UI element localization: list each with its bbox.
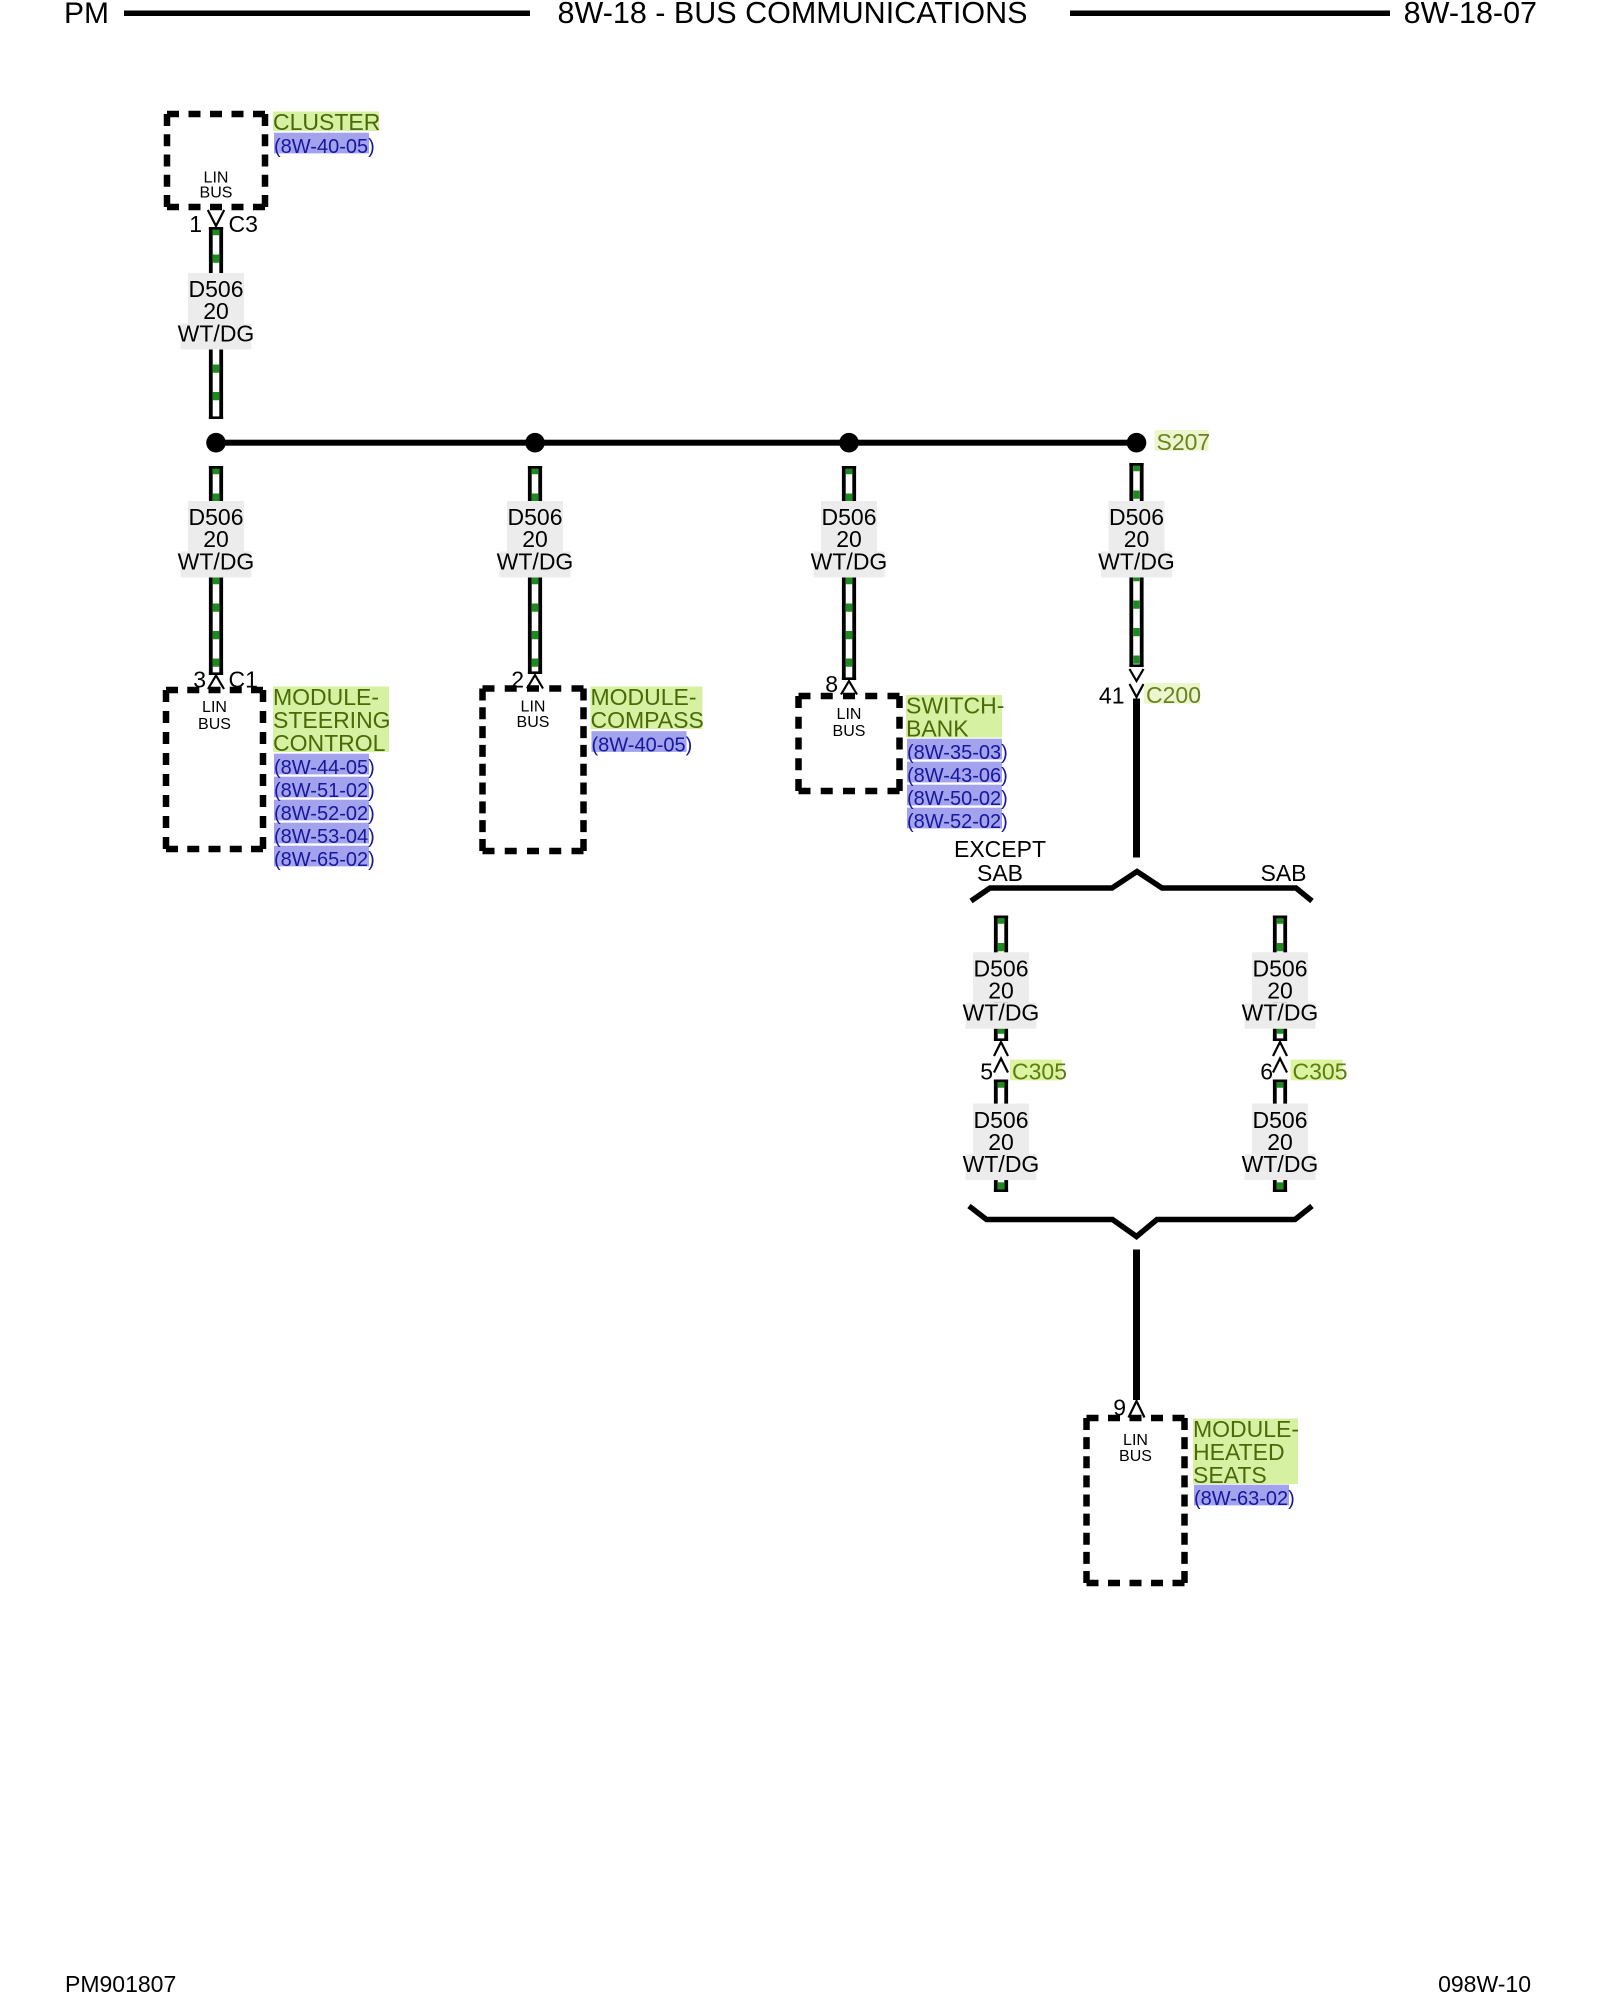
- svg-text:BUS: BUS: [198, 716, 231, 733]
- svg-text:(8W-53-04): (8W-53-04): [274, 826, 375, 848]
- svg-text:BUS: BUS: [833, 723, 866, 740]
- svg-text:SEATS: SEATS: [1193, 1462, 1267, 1488]
- svg-text:BANK: BANK: [906, 716, 969, 742]
- svg-text:WT/DG: WT/DG: [178, 548, 255, 574]
- svg-text:(8W-52-02): (8W-52-02): [907, 811, 1008, 833]
- svg-text:CONTROL: CONTROL: [273, 730, 386, 756]
- svg-text:EXCEPT: EXCEPT: [954, 836, 1046, 862]
- svg-text:BUS: BUS: [1119, 1448, 1152, 1465]
- svg-text:WT/DG: WT/DG: [497, 548, 574, 574]
- svg-text:WT/DG: WT/DG: [963, 1000, 1040, 1026]
- svg-text:(8W-40-05): (8W-40-05): [274, 136, 375, 158]
- svg-text:8W-18 - BUS COMMUNICATIONS: 8W-18 - BUS COMMUNICATIONS: [558, 0, 1028, 30]
- svg-text:(8W-50-02): (8W-50-02): [907, 788, 1008, 810]
- svg-text:LIN: LIN: [1123, 1432, 1148, 1449]
- svg-text:C3: C3: [229, 211, 258, 237]
- svg-text:(8W-65-02): (8W-65-02): [274, 849, 375, 871]
- svg-text:S207: S207: [1157, 429, 1211, 455]
- svg-text:(8W-63-02): (8W-63-02): [1194, 1488, 1295, 1510]
- svg-text:098W-10: 098W-10: [1438, 1971, 1531, 1997]
- svg-text:BUS: BUS: [517, 714, 550, 731]
- svg-text:C305: C305: [1293, 1059, 1348, 1085]
- svg-text:LIN: LIN: [202, 699, 227, 716]
- svg-text:COMPASS: COMPASS: [591, 707, 704, 733]
- svg-text:WT/DG: WT/DG: [1098, 548, 1175, 574]
- svg-text:WT/DG: WT/DG: [811, 548, 888, 574]
- svg-text:LIN: LIN: [837, 706, 862, 723]
- svg-text:SAB: SAB: [977, 860, 1023, 886]
- svg-text:(8W-52-02): (8W-52-02): [274, 803, 375, 825]
- svg-text:PM901807: PM901807: [65, 1971, 176, 1997]
- svg-text:WT/DG: WT/DG: [1242, 1151, 1319, 1177]
- svg-text:PM: PM: [64, 0, 109, 30]
- svg-text:C200: C200: [1146, 682, 1201, 708]
- svg-text:BUS: BUS: [200, 185, 233, 202]
- svg-text:5: 5: [980, 1059, 993, 1085]
- svg-text:WT/DG: WT/DG: [963, 1151, 1040, 1177]
- svg-text:(8W-51-02): (8W-51-02): [274, 780, 375, 802]
- svg-text:6: 6: [1260, 1059, 1273, 1085]
- svg-text:CLUSTER: CLUSTER: [273, 109, 380, 135]
- svg-text:41: 41: [1099, 683, 1125, 709]
- svg-text:8W-18-07: 8W-18-07: [1404, 0, 1537, 30]
- svg-text:1: 1: [189, 211, 202, 237]
- svg-text:(8W-40-05): (8W-40-05): [592, 735, 693, 757]
- svg-text:LIN: LIN: [521, 699, 546, 716]
- svg-text:WT/DG: WT/DG: [178, 320, 255, 346]
- svg-text:WT/DG: WT/DG: [1242, 1000, 1319, 1026]
- svg-text:(8W-44-05): (8W-44-05): [274, 757, 375, 779]
- svg-text:(8W-43-06): (8W-43-06): [907, 765, 1008, 787]
- svg-text:SAB: SAB: [1260, 860, 1306, 886]
- svg-text:(8W-35-03): (8W-35-03): [907, 742, 1008, 764]
- svg-text:C305: C305: [1012, 1059, 1067, 1085]
